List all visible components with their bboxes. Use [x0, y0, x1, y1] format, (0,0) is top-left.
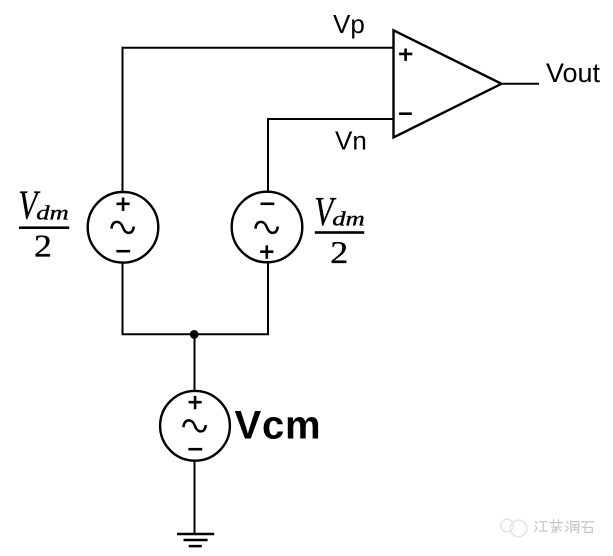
ground	[177, 534, 214, 546]
VS3 minus symbol	[188, 448, 202, 451]
value label Vdm/2 (right source)	[314, 189, 365, 271]
hanzi jiang	[535, 522, 548, 532]
VS2 plus symbol	[260, 245, 273, 258]
svg-text:2: 2	[330, 235, 348, 270]
wire VS2 bottom vertical	[267, 261, 269, 334]
VS1 sine symbol	[111, 222, 133, 233]
hanzi run	[566, 521, 579, 533]
svg-text:Vp: Vp	[333, 9, 365, 39]
VS3 sine symbol	[183, 420, 206, 431]
wire center vertical to Vcm	[194, 334, 196, 391]
wire Vn horizontal	[268, 118, 394, 120]
wire op-amp output	[501, 83, 539, 85]
hanzi shi	[582, 522, 594, 533]
hanzi su	[550, 520, 563, 533]
svg-text:Vcm: Vcm	[235, 404, 322, 448]
node junction dot	[190, 330, 199, 339]
watermark logo	[501, 519, 527, 537]
source VS3 circle (Vcm)	[160, 391, 230, 461]
svg-text:2: 2	[34, 229, 52, 264]
wire VS1 bottom vertical	[122, 262, 124, 334]
svg-text:dm: dm	[332, 208, 365, 230]
wire Vcm bottom to ground	[194, 461, 196, 534]
op-amp U1 triangle	[394, 30, 502, 137]
wire Vn vertical to source VS2	[267, 118, 269, 193]
op-amp plus input symbol	[399, 49, 412, 61]
wire Vp top horizontal	[123, 47, 394, 49]
source VS2 circle (right Vdm/2)	[232, 192, 303, 263]
value label Vdm/2 (left source)	[18, 183, 69, 264]
VS2 minus symbol	[261, 203, 275, 206]
VS1 plus symbol	[117, 198, 130, 211]
wire bottom horizontal bus	[122, 333, 270, 335]
wire left vertical from Vp to source VS1	[122, 47, 124, 193]
VS3 plus symbol	[189, 396, 202, 409]
VS2 sine symbol	[255, 222, 278, 233]
svg-text:Vn: Vn	[335, 126, 367, 156]
op-amp minus input symbol	[399, 112, 412, 115]
svg-text:Vout: Vout	[546, 58, 601, 88]
watermark text jiangsu-runshi (vector glyphs)	[535, 520, 594, 533]
VS1 minus symbol	[116, 250, 130, 253]
source VS1 circle (left Vdm/2)	[88, 192, 159, 263]
svg-text:dm: dm	[36, 202, 69, 224]
